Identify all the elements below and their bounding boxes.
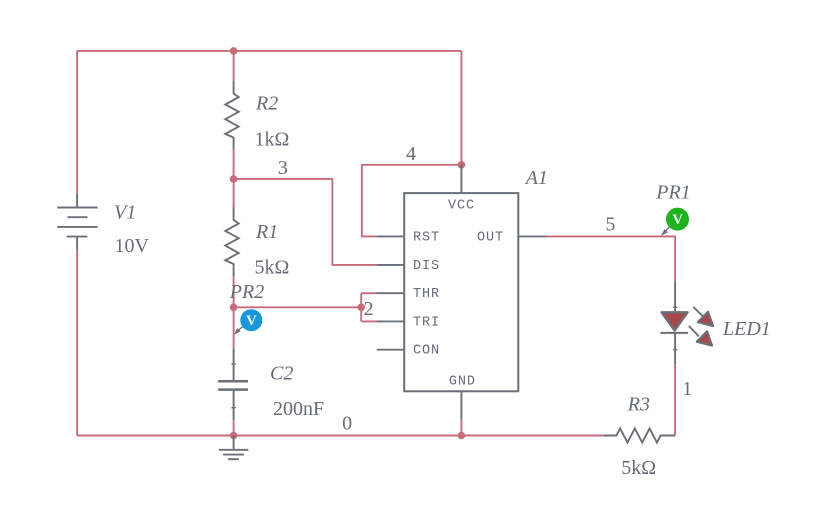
svg-text:V1: V1 bbox=[114, 201, 136, 223]
svg-text:1: 1 bbox=[682, 378, 692, 400]
pin TRI stub bbox=[377, 320, 404, 322]
svg-text:DIS: DIS bbox=[413, 259, 440, 274]
wire OUT net 5 bbox=[546, 236, 675, 280]
svg-text:R2: R2 bbox=[255, 93, 278, 115]
resistor R3 bbox=[604, 428, 676, 442]
wire LED cathode to R3 net 1 bbox=[674, 364, 676, 435]
svg-text:TRI: TRI bbox=[413, 315, 440, 330]
junction net 2 right bbox=[357, 304, 365, 312]
wire C2 bottom stub bbox=[233, 420, 235, 436]
pin CON stub bbox=[377, 349, 404, 351]
resistor R2 bbox=[225, 81, 238, 150]
pin DIS stub bbox=[377, 264, 404, 266]
svg-text:3: 3 bbox=[278, 157, 288, 179]
svg-text:PR2: PR2 bbox=[229, 281, 264, 303]
pin GND stub bbox=[460, 391, 462, 419]
wire left vertical lower V1 minus to bottom rail bbox=[76, 250, 78, 436]
svg-text:GND: GND bbox=[449, 374, 476, 389]
junction bottom rail at GND pin bbox=[458, 432, 466, 440]
ground symbol bbox=[219, 436, 248, 460]
svg-text:VCC: VCC bbox=[448, 199, 475, 214]
wire net 4 branch to RST bbox=[362, 165, 462, 237]
wire net 2 to TRI bbox=[361, 320, 377, 322]
svg-text:200nF: 200nF bbox=[273, 398, 324, 420]
probe PR2 bbox=[234, 309, 262, 335]
battery V1 symbol bbox=[57, 194, 97, 250]
pin THR stub bbox=[377, 292, 404, 294]
pin RST stub bbox=[377, 235, 404, 237]
wire net 2 horizontal bbox=[234, 306, 362, 308]
svg-text:5kΩ: 5kΩ bbox=[621, 457, 656, 479]
svg-text:R1: R1 bbox=[255, 221, 278, 243]
wire R1 bottom stub to node PR2 bbox=[233, 276, 235, 307]
pin VCC stub bbox=[460, 165, 462, 193]
svg-text:5kΩ: 5kΩ bbox=[255, 257, 290, 279]
LED LED1 bbox=[660, 280, 713, 364]
junction net 2 left PR2 bbox=[230, 304, 238, 312]
svg-text:R3: R3 bbox=[627, 394, 650, 416]
svg-text:1kΩ: 1kΩ bbox=[255, 128, 290, 150]
svg-text:2: 2 bbox=[364, 298, 374, 320]
svg-text:PR1: PR1 bbox=[655, 182, 690, 204]
svg-text:V: V bbox=[672, 212, 683, 228]
capacitor C2 bbox=[218, 349, 248, 420]
svg-text:CON: CON bbox=[413, 344, 440, 359]
svg-text:V: V bbox=[246, 313, 257, 329]
wire VCC drop net 4 bbox=[460, 51, 462, 165]
svg-text:THR: THR bbox=[413, 287, 440, 302]
junction top rail at R2 bbox=[230, 47, 238, 55]
wire net 3 branch to DIS bbox=[234, 179, 378, 265]
wire R2 bottom stub net 3 bbox=[233, 150, 235, 179]
junction net 4 bbox=[458, 161, 466, 169]
svg-text:0: 0 bbox=[342, 412, 352, 434]
wire net 2 vertical THR-TRI bbox=[360, 293, 362, 321]
wire top rail V1 to VCC bbox=[77, 50, 461, 52]
junction net 3 bbox=[230, 175, 238, 183]
svg-text:RST: RST bbox=[413, 230, 440, 245]
wire net 2 to THR bbox=[361, 292, 377, 294]
svg-text:C2: C2 bbox=[270, 362, 293, 384]
svg-text:4: 4 bbox=[406, 143, 416, 165]
probe PR1 bbox=[661, 208, 689, 236]
pin OUT stub bbox=[518, 235, 546, 237]
svg-text:10V: 10V bbox=[115, 235, 150, 257]
wire bottom rail net 0 bbox=[77, 435, 604, 437]
wire R2 top stub bbox=[233, 51, 235, 81]
wire GND pin stub red bbox=[460, 419, 462, 435]
svg-text:5: 5 bbox=[605, 214, 615, 236]
svg-text:A1: A1 bbox=[524, 167, 548, 189]
wire C2 top stub bbox=[233, 307, 235, 349]
svg-text:OUT: OUT bbox=[477, 230, 504, 245]
svg-text:LED1: LED1 bbox=[722, 318, 771, 340]
resistor R1 bbox=[225, 208, 238, 277]
wire R1 top stub bbox=[233, 179, 235, 208]
wire left vertical upper V1 plus bbox=[76, 51, 78, 194]
op-amp timer A1 box bbox=[404, 193, 518, 391]
junction bottom rail at C2 bbox=[230, 432, 238, 440]
